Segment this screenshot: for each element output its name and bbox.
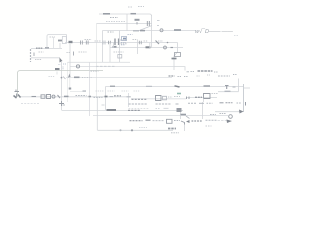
svg-text:w√¯D——·——: w√¯D——·—— xyxy=(195,28,233,35)
